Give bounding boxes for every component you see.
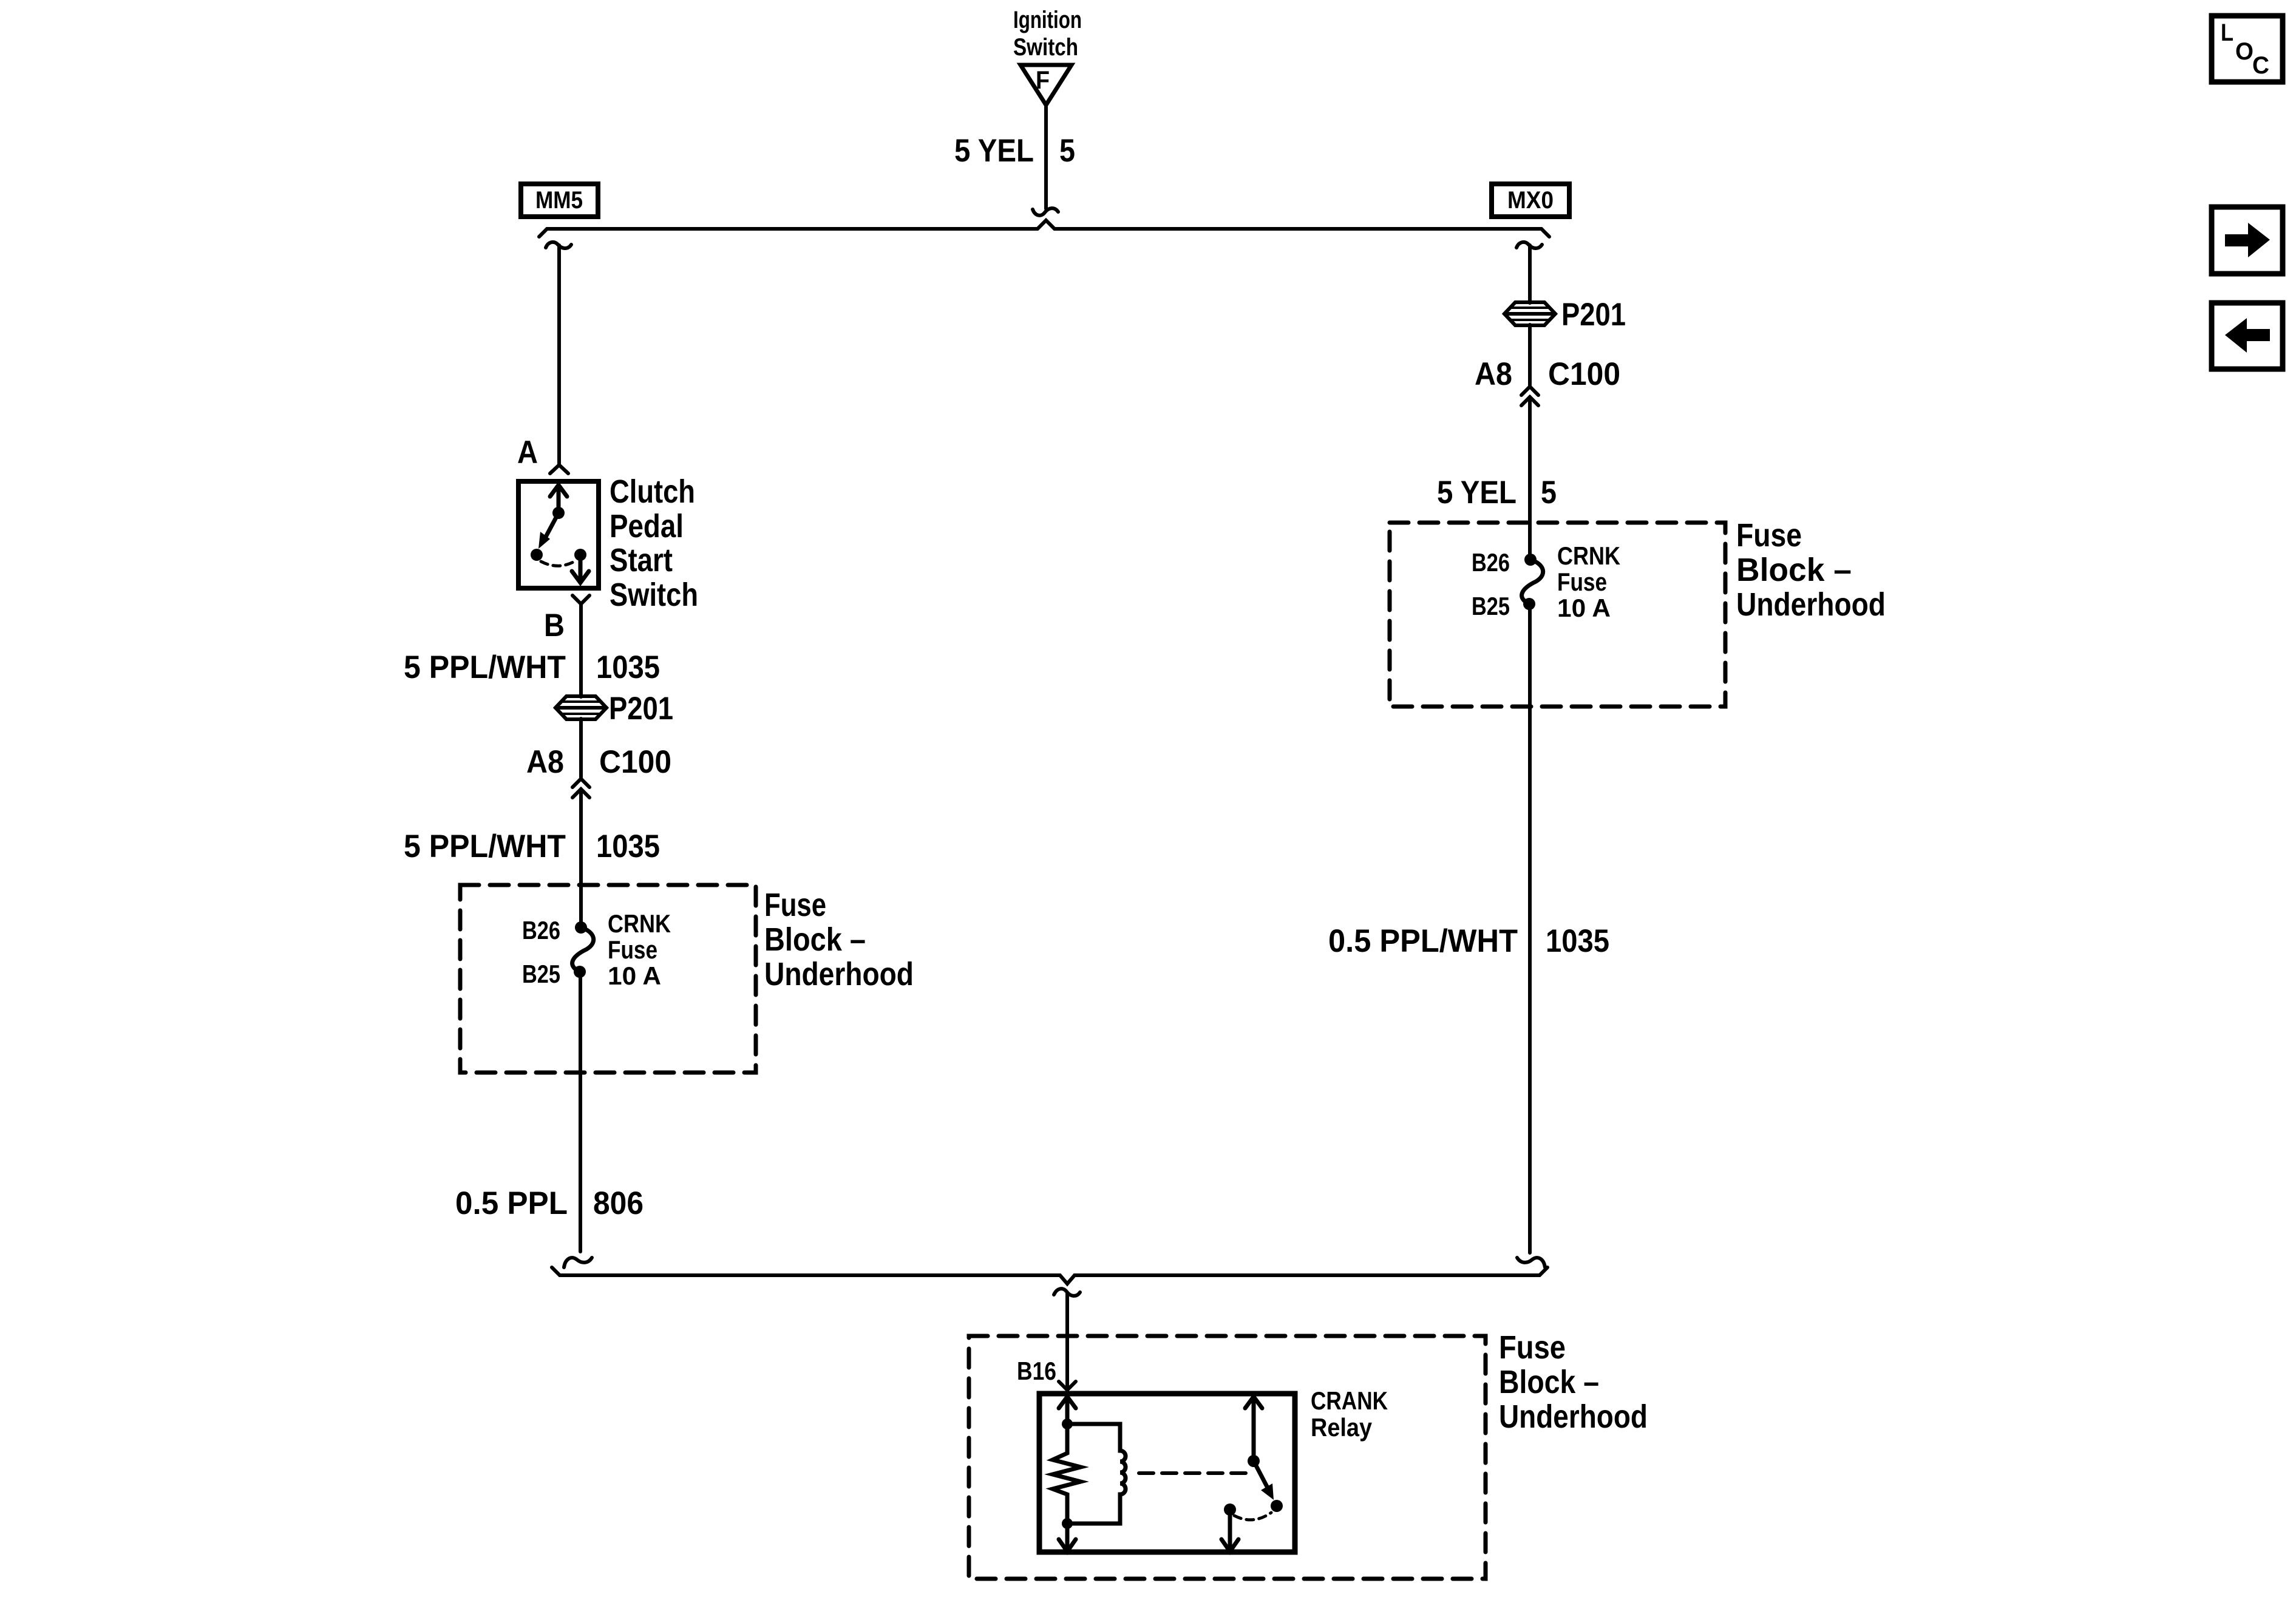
svg-text:5: 5 <box>1059 133 1075 169</box>
bottom splice bus <box>552 1267 1547 1284</box>
svg-text:P201: P201 <box>609 691 673 727</box>
fuse block underhood dashed box (left) <box>460 885 756 1073</box>
relay coil pin up arrow <box>1059 1397 1076 1424</box>
svg-text:Underhood: Underhood <box>1736 586 1886 623</box>
CRNK fuse terminal B26 (right) <box>1524 554 1537 566</box>
fuse block label (bottom) <box>1499 1329 1648 1435</box>
svg-text:C100: C100 <box>599 744 671 780</box>
svg-text:5 YEL: 5 YEL <box>1437 475 1517 510</box>
relay coil pin down arrow <box>1059 1524 1076 1551</box>
navigation box arrow right <box>2212 207 2283 274</box>
svg-text:Relay: Relay <box>1311 1413 1373 1442</box>
svg-text:1035: 1035 <box>596 829 660 864</box>
svg-text:B25: B25 <box>522 960 560 988</box>
hook above bottom bus left branch <box>564 1258 592 1267</box>
relay NO contact dot <box>1271 1500 1283 1512</box>
switch movable arm with arrowhead <box>544 513 559 540</box>
pin A connector symbol <box>550 465 568 473</box>
svg-text:Clutch: Clutch <box>610 473 695 510</box>
wire from pin B down to P201 <box>579 604 583 697</box>
wire from ignition switch F down to splice bus <box>1044 107 1048 209</box>
wire from bus down to crank relay B16 <box>1065 1293 1069 1390</box>
connector box MX0 <box>1492 184 1569 217</box>
page reference box LOC <box>2212 16 2283 82</box>
hook below bottom bus center branch <box>1054 1289 1080 1296</box>
svg-text:0.5 PPL: 0.5 PPL <box>455 1185 568 1221</box>
svg-text:5 PPL/WHT: 5 PPL/WHT <box>404 649 566 685</box>
svg-text:CRANK: CRANK <box>1311 1386 1388 1415</box>
relay coil bottom node dot <box>1062 1518 1073 1529</box>
hook at bottom of ignition wire <box>1033 208 1058 215</box>
grommet P201 (right) <box>1504 302 1555 325</box>
svg-text:C100: C100 <box>1548 356 1620 392</box>
svg-text:C: C <box>2252 52 2269 79</box>
grommet P201 (left) <box>555 696 606 719</box>
wire from fuse B25 down to bottom bus <box>579 972 582 1252</box>
svg-text:A8: A8 <box>526 744 564 780</box>
pin B16 connector symbol <box>1059 1381 1076 1390</box>
svg-text:Fuse: Fuse <box>1557 568 1607 596</box>
CRNK fuse terminal B25 (left) <box>574 966 586 978</box>
fuse block label (left) <box>764 887 914 992</box>
relay output pin down arrow <box>1221 1510 1238 1551</box>
svg-text:5 YEL: 5 YEL <box>954 133 1034 169</box>
wire label 5 YEL 5 <box>954 133 1075 169</box>
relay common pivot dot <box>1248 1455 1260 1467</box>
svg-text:A8: A8 <box>1475 356 1512 392</box>
connector C100 double chevron (left) <box>572 779 589 798</box>
svg-text:Start: Start <box>610 542 673 578</box>
wire from P201 down to C100 (right) <box>1528 325 1532 387</box>
svg-text:B25: B25 <box>1472 592 1510 620</box>
svg-text:Fuse: Fuse <box>608 935 657 964</box>
relay resistor <box>1053 1424 1081 1524</box>
svg-text:Underhood: Underhood <box>764 956 914 992</box>
svg-text:L: L <box>2221 19 2233 46</box>
svg-text:CRNK: CRNK <box>1557 541 1620 570</box>
fuse block underhood dashed box (bottom) <box>969 1336 1486 1579</box>
svg-text:MM5: MM5 <box>535 187 583 214</box>
svg-text:B: B <box>544 608 565 643</box>
CRNK fuse element (right) <box>1522 560 1543 604</box>
relay armature arm with arrowhead <box>1254 1461 1268 1489</box>
wire label 5 YEL 5 (right) <box>1437 475 1557 510</box>
wire label 0.5 PPL/WHT 1035 <box>1328 923 1609 959</box>
relay NC contact dot <box>1224 1503 1236 1516</box>
wire from P201 down to C100 <box>579 719 583 779</box>
switch left contact dot <box>531 549 543 561</box>
connector triangle F (Ignition Switch feed) <box>1021 65 1072 105</box>
svg-text:Switch: Switch <box>610 577 698 613</box>
wire from C100 down into fuse block <box>579 789 583 929</box>
hook above bottom bus right branch <box>1517 1258 1545 1267</box>
wire label 5 PPL/WHT 1035 (second) <box>404 829 660 864</box>
CRNK fuse label (right) <box>1557 541 1620 622</box>
relay coil winding <box>1067 1424 1126 1524</box>
svg-text:O: O <box>2235 38 2254 65</box>
svg-text:CRNK: CRNK <box>608 909 671 938</box>
fuse block underhood dashed box (right) <box>1390 523 1725 707</box>
wire from fuse B25 down to bottom bus (right) <box>1528 604 1532 1253</box>
CRNK fuse terminal B26 (left) <box>575 921 587 934</box>
svg-text:806: 806 <box>593 1185 644 1221</box>
connector box MM5 <box>521 184 598 217</box>
wire label 5 PPL/WHT 1035 <box>404 649 660 685</box>
wire left branch down to clutch switch pin A <box>557 245 561 465</box>
svg-text:Fuse: Fuse <box>1499 1329 1566 1366</box>
CRANK relay label <box>1311 1386 1388 1442</box>
svg-text:Block –: Block – <box>1736 552 1852 588</box>
svg-text:Block –: Block – <box>1499 1364 1599 1400</box>
connector C100 pin A8 label <box>526 744 671 780</box>
pin B connector symbol <box>572 595 589 604</box>
relay contact travel dashed arc <box>1234 1513 1271 1520</box>
svg-text:1035: 1035 <box>1546 923 1609 959</box>
CRNK fuse label (left) <box>608 909 671 990</box>
svg-text:5: 5 <box>1541 475 1557 510</box>
svg-text:Fuse: Fuse <box>1736 517 1802 554</box>
switch internal down arrow (pin B contact) <box>572 555 589 583</box>
svg-text:Ignition: Ignition <box>1013 7 1082 33</box>
svg-text:10 A: 10 A <box>608 961 661 990</box>
svg-text:P201: P201 <box>1561 297 1626 333</box>
CRNK fuse terminal B25 (right) <box>1523 598 1535 610</box>
svg-text:Underhood: Underhood <box>1499 1398 1648 1435</box>
svg-text:Fuse: Fuse <box>764 887 826 923</box>
svg-text:Pedal: Pedal <box>610 508 684 544</box>
svg-text:A: A <box>517 435 538 470</box>
relay coil top node dot <box>1062 1419 1073 1429</box>
fuse block label (right) <box>1736 517 1886 623</box>
svg-text:B26: B26 <box>522 916 560 944</box>
hook under bus right branch <box>1517 242 1542 248</box>
clutch pedal start switch label <box>610 473 698 613</box>
relay common pin up arrow <box>1245 1397 1262 1461</box>
switch right contact dot <box>574 549 586 561</box>
switch internal up arrow (pin A contact) <box>550 485 567 512</box>
svg-text:10 A: 10 A <box>1557 594 1611 622</box>
switch travel dashed arc <box>541 561 576 566</box>
svg-text:0.5 PPL/WHT: 0.5 PPL/WHT <box>1328 923 1518 959</box>
switch pivot dot <box>552 507 565 519</box>
svg-text:MX0: MX0 <box>1507 187 1554 214</box>
navigation box arrow left <box>2212 303 2283 369</box>
top splice bus MM5 to MX0 <box>539 220 1549 237</box>
clutch pedal start switch box <box>518 481 599 588</box>
svg-text:Block –: Block – <box>764 921 866 958</box>
svg-text:B26: B26 <box>1472 548 1510 577</box>
svg-text:5 PPL/WHT: 5 PPL/WHT <box>404 829 566 864</box>
svg-text:Switch: Switch <box>1013 34 1078 61</box>
wire from C100 down into fuse block (right) <box>1528 397 1532 560</box>
relay actuation dashed link <box>1139 1471 1248 1475</box>
ignition switch label <box>1013 7 1082 61</box>
hook under bus left branch <box>546 242 571 248</box>
svg-text:1035: 1035 <box>596 649 660 685</box>
svg-text:B16: B16 <box>1017 1357 1056 1385</box>
connector C100 double chevron (right) <box>1521 387 1538 405</box>
connector C100 pin A8 label (right) <box>1475 356 1620 392</box>
wire right branch down to P201 <box>1528 245 1532 303</box>
CRANK relay box <box>1039 1394 1295 1552</box>
svg-text:F: F <box>1036 66 1050 94</box>
CRNK fuse element (left) <box>572 927 594 972</box>
wire label 0.5 PPL 806 <box>455 1185 644 1221</box>
